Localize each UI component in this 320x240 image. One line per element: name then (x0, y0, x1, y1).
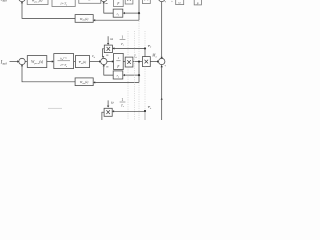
svg-text:p: p (117, 64, 120, 68)
page artifact line (48, 107, 62, 109)
minus sign S2 top diagram (105, 2, 107, 4)
svg-text:ω: ω (110, 37, 113, 41)
svg-text:+: + (164, 64, 166, 68)
multiplier Xw EMF (104, 45, 112, 53)
summing junction S2 (101, 58, 107, 64)
svg-text:ω: ω (111, 101, 114, 105)
wire S1 to W_rt (25, 61, 27, 63)
svg-text:Iзад: Iзад (0, 0, 7, 3)
block integrator top partial (114, 0, 124, 7)
wire X2 to S3 (150, 61, 157, 63)
junction dot flux tap bottom (144, 110, 146, 112)
flux bus dotted line 1 (127, 31, 129, 57)
wire flux tap into Xw right (114, 47, 145, 49)
block converter k/(1+T) (54, 54, 74, 69)
wire I_d down feedback (138, 62, 140, 83)
wire I_d top feedback down (138, 0, 140, 20)
svg-text:p: p (117, 1, 120, 5)
wire shaft from bottom into S3 (161, 64, 163, 120)
junction dot I_d (138, 60, 140, 62)
wire X1 to X2 (133, 61, 143, 63)
wire shaft from top into S3 (161, 0, 163, 57)
wire W_dt to S1 bottom (22, 66, 75, 82)
summing junction S1 (19, 58, 25, 64)
multiplier X1 top partial (125, 0, 133, 4)
flux bus dotted line 2 (134, 31, 136, 120)
svg-text:Iзад: Iзад (0, 61, 7, 66)
block Psi_ed (75, 56, 89, 68)
wire omega input down to Xw bottom (107, 100, 109, 106)
block integrator 1/p (114, 53, 124, 69)
block r_ya top (113, 9, 123, 17)
wire S2 to integrator (107, 61, 112, 63)
wire Xw output to S2 top (102, 49, 104, 57)
flux bus dotted line 4 (144, 31, 146, 48)
wire Psi to S2 (90, 61, 100, 63)
junction dot flux tap (144, 47, 146, 49)
block p top partial (194, 0, 201, 5)
svg-text:1: 1 (121, 36, 123, 40)
wire current feedback top to W_dt (95, 19, 139, 21)
junction dot r top (138, 12, 140, 14)
svg-text:1: 1 (121, 98, 123, 102)
svg-text:1: 1 (118, 56, 120, 60)
junction dot r feedback (138, 74, 140, 76)
wire r_ya to S2 bottom (104, 66, 113, 75)
wire to r_ya box (124, 74, 139, 76)
summing junction S2 top arc (101, 0, 107, 2)
block r_ya (113, 71, 123, 79)
block Psi top partial (79, 0, 101, 3)
wire W_rt to converter (47, 61, 52, 63)
wire to r_ya top (124, 12, 139, 14)
block W_dt sensor (75, 78, 93, 86)
multiplier X1 (125, 57, 133, 67)
svg-text:ω: ω (179, 1, 181, 5)
block J top partial (176, 0, 184, 5)
wire flux tap into Xw bottom (114, 110, 146, 112)
multiplier X2 top partial (142, 0, 150, 3)
wire W_dt top to S1 (22, 3, 75, 19)
wire converter to Psi (74, 61, 76, 63)
block converter top partial (52, 0, 75, 7)
wire input to S1 (10, 61, 18, 63)
wire r_ya top to S2 (104, 3, 113, 13)
wire Xw bottom output down (102, 112, 104, 120)
flux bus dotted line 3 (138, 21, 140, 61)
wire integrator to X1 (123, 61, 125, 63)
summing junction S3 (159, 58, 165, 64)
minus sign S2 bottom (106, 66, 108, 68)
svg-text:+: + (164, 0, 166, 4)
multiplier X2 (142, 57, 150, 67)
block W_dt top (75, 15, 93, 23)
summing junction S3 top arc (159, 0, 165, 2)
svg-text:p: p (196, 1, 199, 5)
multiplier Xw bottom (104, 108, 112, 116)
wire current feedback to W_dt (95, 81, 139, 83)
block W_rt top partial (27, 0, 48, 4)
block W_rt regulator (27, 56, 47, 68)
summing junction S1 top arc (19, 0, 25, 2)
wire omega input down to Xw (107, 36, 109, 43)
minus sign S2 top (106, 54, 108, 56)
